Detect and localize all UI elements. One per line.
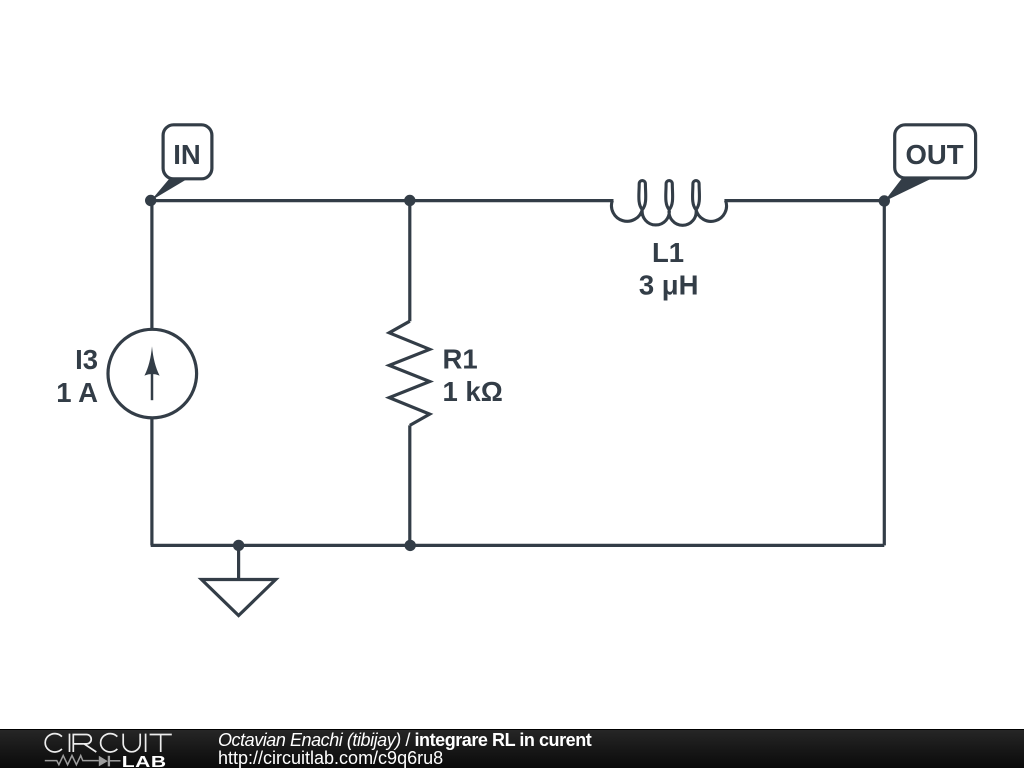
svg-text:L1: L1 [652, 237, 684, 268]
svg-text:R1: R1 [443, 344, 478, 375]
svg-text:OUT: OUT [905, 139, 963, 170]
svg-text:I3: I3 [75, 344, 98, 375]
svg-text:1 A: 1 A [56, 377, 98, 408]
svg-text:1 kΩ: 1 kΩ [443, 376, 503, 407]
svg-text:3 μH: 3 μH [639, 270, 699, 301]
svg-text:IN: IN [173, 139, 201, 170]
svg-text:LAB: LAB [122, 752, 167, 769]
